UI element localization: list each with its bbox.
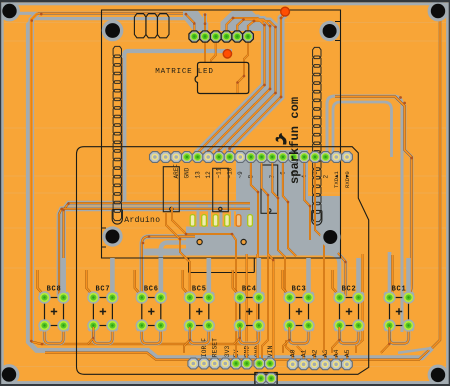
svg-text:A5: A5: [344, 349, 351, 357]
svg-text:A2: A2: [311, 349, 318, 357]
svg-text:3V3: 3V3: [224, 346, 231, 358]
mount hole notches: [102, 22, 341, 248]
svg-text:sparkfun com: sparkfun com: [288, 97, 302, 184]
wire: pads to matrix module: [205, 41, 248, 93]
via V4: [241, 239, 246, 244]
LED bar array D1-D6: [190, 215, 252, 227]
label sparkfun com: [288, 97, 302, 184]
svg-text:13: 13: [194, 171, 201, 179]
wire: matrix-to-digital nested bundle: [183, 11, 207, 31]
led D3: [213, 215, 218, 227]
svg-text:BC8: BC8: [47, 285, 62, 293]
wire: fan above six pad connector: [185, 13, 207, 33]
transistor BC2: [333, 258, 365, 344]
svg-text:A0: A0: [290, 349, 297, 357]
wire: pour to BC6 feeds: [142, 235, 195, 296]
zipper end beads: [112, 209, 122, 224]
svg-text:BC6: BC6: [144, 285, 159, 293]
wire: analog pad stubs: [286, 340, 347, 359]
svg-text:BC7: BC7: [95, 285, 110, 293]
IC U3 outline: [163, 167, 179, 212]
transistor BC4: [233, 258, 265, 344]
sparkfun flame logo: [276, 133, 287, 145]
svg-text:BC4: BC4: [242, 285, 257, 293]
analog header J7: [287, 349, 352, 369]
svg-text:RXD▼0: RXD▼0: [344, 171, 351, 188]
IC U4 outline: [213, 168, 229, 211]
svg-text:MATRICE LED: MATRICE LED: [155, 68, 213, 76]
svg-text:A4: A4: [333, 349, 340, 357]
transistor BC8: [38, 258, 70, 344]
svg-text:RESET: RESET: [212, 338, 219, 357]
connector J8 two pin: [255, 373, 277, 386]
transistor BC3: [283, 258, 315, 344]
power header J6: [188, 338, 275, 369]
mounting hole H6 shield top-right: [319, 21, 339, 41]
wire: right edge orange pair: [398, 6, 440, 353]
header J3 zipper left: [113, 46, 121, 220]
wire: right frame outer: [322, 96, 413, 332]
mounting hole H1 top-left: [0, 1, 20, 22]
svg-text:BC1: BC1: [392, 285, 407, 293]
svg-text:A1: A1: [300, 349, 307, 357]
svg-text:GND: GND: [184, 167, 191, 178]
via V2: [223, 50, 231, 58]
via V3: [197, 239, 202, 244]
svg-text:~9: ~9: [237, 171, 244, 179]
svg-text:BC3: BC3: [292, 285, 307, 293]
svg-text:~11: ~11: [216, 167, 223, 178]
led D1: [190, 215, 195, 227]
mounting hole H5 shield top-left: [102, 20, 124, 42]
led D5: [236, 215, 241, 227]
led D2: [202, 215, 207, 227]
wire: BC bottom drops: [88, 327, 390, 353]
gray pour center: [140, 150, 341, 256]
mounting hole H2 top-right: [428, 1, 449, 22]
mounting hole H8 shield bottom-right: [320, 227, 340, 247]
header J4 zipper right: [313, 47, 321, 221]
svg-text:BC5: BC5: [192, 285, 207, 293]
digital header J1: [150, 152, 353, 188]
wire: left mid bundle to BC8/BC7: [59, 203, 250, 297]
led D4: [225, 215, 230, 227]
svg-text:12: 12: [205, 171, 212, 179]
component outline Arduino shield: [77, 147, 369, 375]
svg-text:~10: ~10: [226, 167, 233, 178]
wire: top gray band from hole to fan: [124, 13, 232, 205]
transistor BC5: [183, 258, 215, 344]
mounting hole H3 bottom-left: [0, 364, 19, 385]
led D6: [248, 215, 253, 227]
svg-text:BC2: BC2: [342, 285, 357, 293]
svg-text:TXD▲1: TXD▲1: [333, 171, 340, 188]
component outline U1 matrix: [102, 10, 341, 273]
transistor BC1: [383, 258, 414, 344]
connector J2 three octagons: [134, 14, 169, 38]
via V1: [281, 7, 290, 16]
IC U5 outline: [261, 165, 278, 213]
mounting hole H4 bottom-right: [428, 365, 449, 386]
transistor BC6: [135, 258, 167, 344]
component U2 led module rect: [195, 62, 249, 93]
mounting hole H7 shield bottom-left: [102, 226, 122, 246]
J5 six pad connector: [189, 31, 254, 42]
wire: midband orange traces: [166, 163, 363, 358]
svg-text:Arduino: Arduino: [124, 216, 160, 225]
transistor BC7: [86, 258, 118, 344]
svg-text:2: 2: [322, 175, 329, 179]
